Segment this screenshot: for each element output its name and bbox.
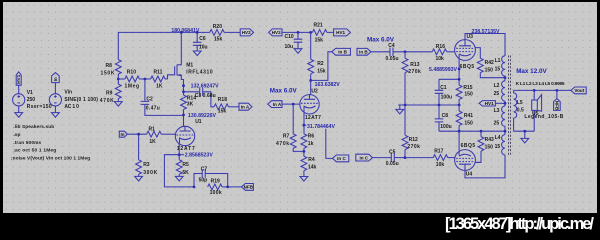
- wire HV1 tap: [495, 102, 505, 104]
- transistor M1 IRFL4310: [168, 32, 213, 85]
- svg-text:470K: 470K: [100, 98, 114, 104]
- svg-text:150: 150: [464, 91, 473, 97]
- node R43 on rail: [480, 130, 483, 133]
- resistor R21: [312, 22, 327, 43]
- svg-text:In: In: [53, 77, 58, 81]
- wire U3 screen to R42: [475, 48, 480, 59]
- pentode U4 6BQ5 (mirrored): [455, 143, 476, 178]
- svg-text:2.8568523V: 2.8568523V: [185, 153, 214, 159]
- svg-text:150: 150: [485, 144, 494, 150]
- resistor R19: [208, 178, 242, 196]
- svg-text:R20: R20: [213, 24, 222, 30]
- ground under V1: [15, 113, 23, 118]
- node C1 branch: [458, 78, 461, 81]
- node U1 plate / C2: [182, 114, 185, 117]
- ground under R5: [175, 176, 183, 181]
- wire U1 plate: [183, 86, 185, 127]
- svg-text:15: 15: [495, 144, 501, 150]
- flag HV1 center tap: [479, 101, 495, 106]
- svg-text:Max 6.0V: Max 6.0V: [270, 88, 298, 95]
- capacitor C6: [193, 32, 208, 51]
- svg-text:HV1: HV1: [485, 101, 494, 106]
- svg-text:6BQ5: 6BQ5: [461, 143, 476, 149]
- svg-text:150K: 150K: [101, 70, 115, 76]
- ground secondary: [521, 131, 529, 143]
- node C10 on rail: [297, 31, 300, 34]
- node R6/R7/R4: [303, 150, 306, 153]
- wire U3 plate to transformer: [465, 34, 505, 56]
- svg-text:0.47u: 0.47u: [146, 106, 160, 112]
- svg-text:100u: 100u: [440, 124, 452, 130]
- node U3 cathode label: [458, 68, 461, 71]
- svg-text:270k: 270k: [408, 69, 421, 75]
- svg-text:150: 150: [485, 67, 494, 73]
- svg-text:0.05u: 0.05u: [386, 161, 399, 167]
- ground under Vin: [52, 113, 60, 118]
- svg-text:15k: 15k: [315, 37, 324, 43]
- svg-text:163.6382V: 163.6382V: [315, 82, 341, 88]
- svg-text:C3 0.68u: C3 0.68u: [195, 93, 216, 99]
- voltage source Vin: [49, 83, 98, 113]
- svg-text:L3: L3: [494, 108, 500, 114]
- flag In at Vin (rotated): [52, 73, 60, 83]
- svg-text:5.4885993V: 5.4885993V: [429, 67, 458, 73]
- svg-text:100k: 100k: [210, 190, 222, 196]
- node C4/R13/R16: [404, 50, 407, 53]
- svg-text:In C: In C: [337, 156, 346, 161]
- svg-text:Max 12.0V: Max 12.0V: [516, 68, 547, 75]
- svg-text:C4: C4: [388, 43, 395, 49]
- svg-text:10u: 10u: [285, 44, 294, 50]
- flag Vout: [571, 87, 586, 94]
- capacitor C10: [285, 32, 303, 49]
- flag HV2 left (splitter supply): [269, 29, 282, 36]
- svg-text:R19: R19: [211, 178, 220, 184]
- wire In to R1: [127, 133, 146, 135]
- capacitor C8: [435, 105, 452, 131]
- svg-text:R9: R9: [106, 90, 113, 96]
- node C3 tap: [182, 90, 185, 93]
- svg-text:C2: C2: [146, 96, 153, 102]
- flag In B left: [332, 48, 351, 55]
- resistor R6: [301, 134, 314, 157]
- svg-text:1Meg: 1Meg: [125, 84, 140, 90]
- capacitor C2: [141, 79, 184, 115]
- svg-text:130.89226V: 130.89226V: [188, 113, 217, 119]
- svg-text:25: 25: [494, 91, 500, 97]
- capacitor C7: [194, 166, 228, 187]
- svg-text:R2: R2: [317, 61, 324, 67]
- svg-text:1k: 1k: [308, 141, 314, 147]
- resistor R15: [456, 85, 473, 105]
- wire In C link: [304, 125, 333, 158]
- svg-text:100u: 100u: [441, 94, 453, 100]
- svg-text:HV2: HV2: [242, 30, 251, 35]
- wire mid ground rail: [398, 104, 459, 106]
- svg-text:R4: R4: [308, 157, 315, 163]
- ground under R9: [114, 102, 122, 107]
- wire U4 screen to R43: [475, 161, 481, 163]
- svg-text:In A: In A: [273, 102, 282, 107]
- svg-text:C5: C5: [389, 150, 396, 156]
- resistor R13: [402, 52, 421, 105]
- flag In at U1: [119, 131, 127, 137]
- resistor R41: [456, 105, 473, 131]
- node L1/L2/R42 tap: [504, 76, 507, 79]
- svg-text:1K: 1K: [149, 139, 156, 145]
- resistor R18: [214, 97, 239, 114]
- resistor R14: [181, 95, 197, 110]
- svg-text:10k: 10k: [436, 162, 445, 168]
- svg-text:180.06841V: 180.06841V: [171, 28, 200, 34]
- flag In C left: [333, 155, 349, 162]
- resistor R20: [210, 24, 225, 42]
- node M1 source: [182, 84, 185, 87]
- ground under R3: [135, 176, 143, 181]
- flag In A left (U2 grid): [268, 101, 282, 108]
- ground mid rail: [396, 105, 404, 114]
- capacitor C1: [435, 79, 452, 105]
- svg-text:C10: C10: [285, 34, 294, 40]
- svg-text:L2: L2: [494, 83, 500, 89]
- svg-text:In B: In B: [338, 50, 347, 55]
- svg-text:M1: M1: [186, 63, 193, 69]
- resistor R4: [301, 156, 317, 176]
- svg-text:R17: R17: [434, 149, 443, 155]
- ground under C6: [193, 51, 201, 56]
- inductor L2: [494, 76, 505, 106]
- node NFB tap: [556, 89, 559, 92]
- node C7/R19 left: [193, 186, 196, 189]
- node U4 cathode on rail: [458, 130, 461, 133]
- svg-text:15k: 15k: [214, 36, 223, 42]
- svg-text:15k: 15k: [218, 108, 227, 114]
- inductor L5 secondary: [514, 90, 524, 131]
- svg-text:Vout: Vout: [574, 88, 584, 93]
- resistor R12: [402, 105, 420, 158]
- node R2 on rail: [309, 31, 312, 34]
- node C5/R12/R17: [404, 156, 407, 159]
- svg-text:HV2: HV2: [272, 30, 281, 35]
- flag In C right (to C5): [356, 154, 373, 161]
- node U1 cathode: [178, 153, 181, 156]
- wire top rail left: [118, 32, 240, 59]
- svg-text:.op: .op: [13, 133, 20, 138]
- svg-text:C7: C7: [201, 166, 208, 172]
- svg-text:R16: R16: [436, 44, 445, 50]
- node U2 cathode: [303, 124, 306, 127]
- svg-text:R7: R7: [283, 134, 290, 140]
- speaker U5 Legend_105-B: [524, 90, 563, 131]
- svg-text:C6: C6: [199, 36, 206, 42]
- inductor L4: [502, 135, 505, 155]
- wire splitter rail: [282, 31, 334, 33]
- svg-text:.tran 500ms: .tran 500ms: [13, 140, 41, 146]
- node R10/R11/C2: [144, 78, 147, 81]
- voltage source V1: [13, 85, 52, 112]
- wire U1 cathode: [164, 144, 194, 187]
- wire bottom cathode rail: [439, 130, 505, 132]
- svg-text:14k: 14k: [308, 164, 317, 170]
- svg-text:470k: 470k: [276, 141, 289, 147]
- flag HV2 right: [240, 29, 253, 36]
- svg-text:R5: R5: [182, 162, 189, 168]
- svg-text:HV1: HV1: [336, 30, 345, 35]
- svg-text:R21: R21: [314, 22, 323, 28]
- resistor R43: [476, 131, 494, 162]
- svg-text:NFB: NFB: [555, 101, 560, 111]
- flag NFB rotated (speaker): [554, 90, 561, 111]
- resistor R11: [151, 70, 168, 90]
- resistor R16: [432, 44, 455, 62]
- node R8/R9/R10: [117, 78, 120, 81]
- svg-text:5K: 5K: [182, 170, 189, 176]
- svg-text:L5: L5: [517, 100, 523, 106]
- wire U3 cathode: [439, 59, 459, 86]
- svg-text:R3: R3: [143, 162, 150, 168]
- svg-text:C8: C8: [442, 113, 449, 119]
- svg-text:R15: R15: [463, 85, 472, 91]
- inductor L3: [494, 106, 505, 135]
- resistor R1: [147, 126, 176, 145]
- svg-text:12AT7: 12AT7: [305, 115, 321, 121]
- node L3/L4 tap: [504, 130, 507, 133]
- svg-text:L4: L4: [495, 135, 501, 141]
- resistor R3: [136, 134, 158, 176]
- svg-text:10k: 10k: [436, 56, 445, 62]
- svg-text:V1: V1: [27, 90, 33, 96]
- node grid/R7: [292, 103, 295, 106]
- svg-text:270k: 270k: [407, 144, 420, 150]
- resistor R42: [477, 58, 505, 77]
- wire U2 cathode: [303, 113, 305, 134]
- svg-text:Legend_105-B: Legend_105-B: [524, 114, 563, 120]
- wire secondary bottom: [514, 130, 535, 132]
- node secondary ground: [523, 130, 526, 133]
- triode U1 12AT7: [175, 119, 202, 152]
- svg-text:15k: 15k: [317, 69, 326, 75]
- node speaker top: [533, 89, 536, 92]
- svg-text:238.57135V: 238.57135V: [472, 29, 501, 35]
- svg-text:In A: In A: [241, 105, 250, 110]
- svg-text:R8: R8: [106, 63, 113, 69]
- svg-text:R41: R41: [464, 113, 473, 119]
- svg-text:AC 1 0: AC 1 0: [64, 104, 79, 110]
- wire In A to U2 grid: [282, 103, 300, 105]
- resistor R2: [308, 32, 326, 94]
- svg-text:31.784464V: 31.784464V: [307, 124, 336, 130]
- svg-text:R42: R42: [485, 60, 494, 66]
- svg-text:C1: C1: [440, 85, 447, 91]
- node R13/R12 on rail: [404, 104, 407, 107]
- resistor R17: [405, 149, 455, 169]
- svg-text:R18: R18: [218, 97, 227, 103]
- ground under R4: [300, 177, 308, 182]
- svg-text:[1365x487]http://upic.me/: [1365x487]http://upic.me/: [445, 215, 594, 233]
- svg-text:150: 150: [464, 121, 473, 127]
- svg-text:15: 15: [495, 67, 501, 73]
- wire In B link: [311, 52, 332, 81]
- capacitor C3: [184, 88, 216, 107]
- svg-text:.lib Speakers.sub: .lib Speakers.sub: [13, 124, 54, 130]
- svg-text:In: In: [120, 132, 124, 137]
- svg-text:25: 25: [494, 120, 500, 126]
- svg-text:R12: R12: [409, 137, 418, 143]
- svg-text:IRFL4310: IRFL4310: [186, 70, 213, 76]
- svg-text:R43: R43: [485, 137, 494, 143]
- svg-text:132.69247V: 132.69247V: [191, 84, 220, 90]
- svg-text:Rser=150: Rser=150: [27, 104, 52, 110]
- wire U4 plate to transformer bottom: [465, 155, 505, 178]
- svg-text:6BQ5: 6BQ5: [460, 64, 475, 70]
- svg-text:R10: R10: [127, 70, 136, 76]
- svg-text:;ac oct 50 1 1Meg: ;ac oct 50 1 1Meg: [13, 148, 56, 154]
- node center tap: [504, 102, 507, 105]
- capacitor C4: [371, 43, 432, 62]
- svg-text:300K: 300K: [143, 170, 157, 176]
- triode U2 12AT7: [300, 89, 321, 122]
- flag HV1 right of R21: [334, 29, 351, 36]
- voltage label 31.784464V: [306, 123, 340, 129]
- svg-text:U1: U1: [195, 119, 202, 125]
- resistor R5: [176, 155, 189, 177]
- pentode U3 6BQ5: [455, 34, 476, 70]
- svg-text:R13: R13: [410, 62, 419, 68]
- resistor R7: [276, 104, 304, 151]
- node C1/C8 on rail: [438, 104, 441, 107]
- resistor R9: [100, 79, 121, 104]
- svg-text:;noise V(Vout) Vin oct 100 1 1: ;noise V(Vout) Vin oct 100 1 1Meg: [11, 155, 90, 161]
- node C7/R19 right: [226, 186, 229, 189]
- svg-text:0.05u: 0.05u: [386, 56, 399, 62]
- flag In A right: [239, 103, 252, 110]
- svg-text:50p: 50p: [199, 177, 208, 183]
- resistor R10: [118, 70, 150, 90]
- svg-text:1K: 1K: [156, 83, 163, 89]
- node U2 plate: [309, 79, 312, 82]
- svg-text:HV1: HV1: [16, 74, 21, 83]
- svg-text:In B: In B: [359, 50, 368, 55]
- node C6 on rail: [196, 31, 199, 34]
- svg-text:U4: U4: [466, 172, 473, 178]
- svg-text:SINE(0 1 100): SINE(0 1 100): [64, 97, 98, 103]
- svg-text:Vin: Vin: [64, 90, 72, 96]
- svg-text:3K: 3K: [187, 102, 194, 108]
- resistor R8: [101, 60, 122, 79]
- wire U4 cathode: [458, 131, 460, 150]
- wire secondary top to Vout: [514, 89, 571, 91]
- svg-text:250: 250: [27, 97, 36, 103]
- svg-text:In C: In C: [359, 155, 368, 160]
- flag In B right (to C4): [357, 48, 371, 55]
- node M1 drain on rail: [180, 31, 183, 34]
- flag NFB left: [242, 184, 254, 191]
- svg-text:0.5: 0.5: [517, 108, 524, 114]
- capacitor C5: [373, 150, 406, 168]
- svg-text:R11: R11: [154, 70, 163, 76]
- svg-text:L1: L1: [495, 58, 501, 64]
- node R15/R41 on rail: [458, 104, 461, 107]
- voltage label 2.8568523V: [179, 154, 184, 156]
- svg-text:R1: R1: [149, 126, 156, 132]
- inductor L1: [502, 56, 505, 76]
- svg-text:10u: 10u: [199, 45, 208, 51]
- transformer core: [509, 56, 511, 156]
- svg-text:K L1 L2 L3 L4 L5 0.9995: K L1 L2 L3 L4 L5 0.9995: [516, 81, 565, 87]
- svg-text:U2: U2: [311, 89, 318, 95]
- flag HV1 at V1 (rotated): [16, 72, 21, 85]
- svg-text:R6: R6: [308, 134, 315, 140]
- svg-text:NFB: NFB: [244, 185, 254, 190]
- ground under C10: [294, 49, 302, 54]
- node In/R1/R3: [137, 133, 140, 136]
